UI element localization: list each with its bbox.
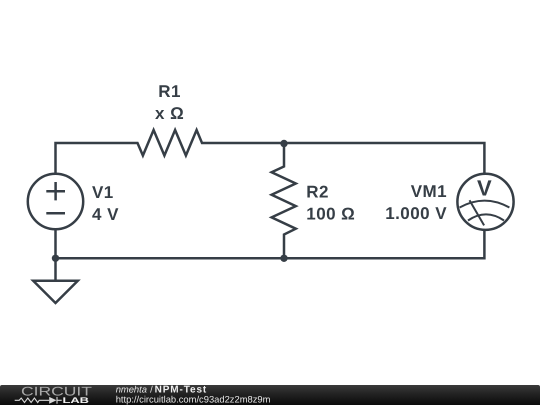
svg-text:R1: R1: [158, 82, 181, 101]
svg-text:VM1: VM1: [411, 182, 447, 201]
svg-text:R2: R2: [306, 182, 329, 201]
svg-text:1.000 V: 1.000 V: [385, 204, 447, 223]
svg-text:x Ω: x Ω: [155, 104, 184, 123]
svg-text:V: V: [477, 175, 492, 200]
svg-text:4 V: 4 V: [92, 205, 119, 224]
svg-text:100 Ω: 100 Ω: [306, 204, 355, 223]
svg-text:V1: V1: [92, 183, 114, 202]
